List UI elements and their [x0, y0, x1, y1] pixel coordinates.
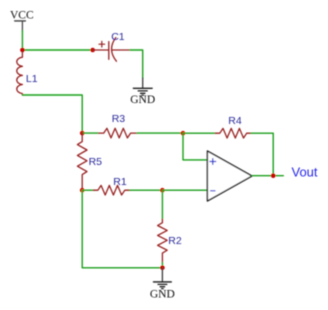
ground GND (bottom) — [150, 268, 175, 300]
wire node E to op-amp - input — [162, 189, 207, 191]
junction node D (R5/R1 junction) — [80, 188, 85, 193]
ground GND (top) — [130, 78, 155, 106]
wire node D to bottom ground rail — [82, 190, 162, 268]
svg-text:L1: L1 — [26, 73, 38, 85]
wire node C to op-amp + input — [183, 133, 207, 160]
power symbol VCC — [10, 10, 34, 31]
junction node C (R3/R4/+input) — [181, 131, 186, 136]
junction node B (R3/R5 junction) — [80, 131, 85, 136]
svg-text:VCC: VCC — [10, 10, 34, 22]
svg-text:R5: R5 — [89, 156, 103, 168]
resistor R2 — [158, 219, 168, 262]
svg-text:R4: R4 — [228, 115, 242, 127]
svg-text:GND: GND — [130, 94, 155, 106]
svg-text:GND: GND — [150, 288, 175, 300]
junction at C1 positive lead — [90, 48, 95, 53]
inductor L1 — [17, 52, 23, 96]
junction bottom ground node — [160, 266, 165, 271]
wire node B to R3 — [82, 132, 99, 134]
svg-text:R3: R3 — [112, 113, 126, 125]
wire R4 to output node — [251, 133, 273, 176]
wire C1 to top ground — [130, 50, 143, 78]
wire node C to R4 — [183, 132, 215, 134]
wire R2 to bottom ground node — [161, 263, 163, 269]
resistor R1 — [93, 185, 129, 195]
wire node E to R2 — [161, 190, 163, 219]
svg-text:R1: R1 — [113, 176, 127, 188]
wire node D to R1 — [82, 189, 93, 191]
op-amp U1 — [207, 151, 252, 201]
junction output node — [271, 173, 276, 178]
junction node E (R1/R2/-input) — [160, 188, 165, 193]
resistor R5 — [77, 133, 87, 190]
wire VCC pin to node A — [21, 31, 23, 50]
svg-text:C1: C1 — [111, 31, 125, 43]
wire R3 to node C — [137, 132, 183, 134]
wire op-amp output to Vout — [252, 175, 283, 177]
junction node A (VCC net) — [20, 48, 25, 53]
capacitor C1 — [93, 38, 130, 62]
resistor R4 — [215, 128, 251, 138]
svg-text:Vout: Vout — [292, 164, 318, 179]
resistor R3 — [99, 128, 137, 138]
wire R1 to node E — [130, 189, 163, 191]
wire L1 bottom to node B — [22, 95, 82, 133]
svg-text:R2: R2 — [168, 235, 182, 247]
wire node A to C1 — [22, 49, 92, 51]
